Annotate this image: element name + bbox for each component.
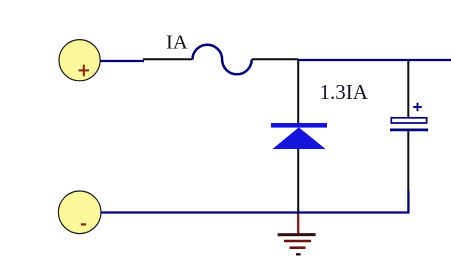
- wire: P1 to node (navy): [100, 60, 144, 62]
- capacitor C1 plus mark: [413, 103, 422, 111]
- wire: top node to capacitor (black): [407, 59, 409, 118]
- minus mark of P2: [81, 223, 86, 225]
- ground bar 4: [296, 253, 301, 255]
- wire: cap branch to bottom wire corner (navy): [101, 191, 409, 213]
- wire: to fuse (black): [143, 58, 193, 60]
- fuse F1: [193, 45, 252, 75]
- wire: capacitor down (black): [407, 131, 409, 191]
- plus mark of P1: [79, 65, 90, 77]
- wire: fuse to node A (black): [252, 58, 299, 60]
- capacitor C1 top plate: [391, 118, 426, 123]
- svg-text:IA: IA: [166, 32, 188, 54]
- svg-text:1.3IA: 1.3IA: [320, 80, 369, 104]
- ground bar 2: [284, 240, 311, 243]
- terminal P1 (+): [59, 40, 100, 81]
- diode D1 triangle: [273, 127, 326, 149]
- ground bar 1: [278, 233, 316, 236]
- diode D1 cathode bar: [271, 123, 327, 128]
- wire: node A down to diode (black): [297, 59, 299, 124]
- wire: node A to right edge (navy): [297, 59, 451, 61]
- terminal P2 (-): [58, 191, 101, 234]
- wire: diode to bottom wire (black): [297, 149, 299, 214]
- capacitor C1 bottom plate: [390, 129, 428, 132]
- ground bar 3: [290, 246, 306, 249]
- ground stem (dark red): [297, 214, 299, 234]
